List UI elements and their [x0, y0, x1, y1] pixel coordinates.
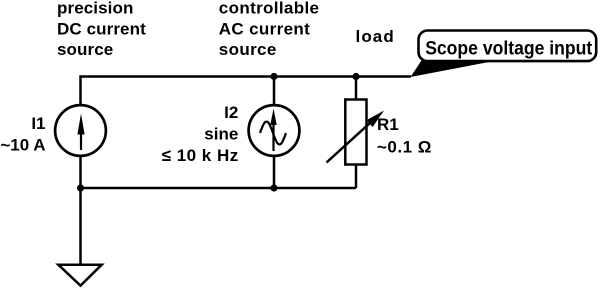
svg-text:AC current: AC current	[219, 19, 310, 38]
svg-text:source: source	[219, 40, 277, 59]
svg-text:DC current: DC current	[57, 19, 146, 38]
svg-text:Scope voltage input: Scope voltage input	[425, 38, 593, 59]
svg-text:source: source	[57, 40, 113, 59]
svg-text:I1: I1	[31, 114, 45, 133]
svg-text:~0.1 Ω: ~0.1 Ω	[377, 138, 432, 157]
svg-text:controllable: controllable	[219, 0, 320, 18]
svg-text:precision: precision	[57, 0, 133, 18]
svg-text:sine: sine	[204, 124, 238, 143]
svg-text:load: load	[356, 27, 395, 46]
svg-text:I2: I2	[224, 103, 238, 122]
svg-text:~10 A: ~10 A	[0, 136, 45, 155]
svg-text:≤ 10 k Hz: ≤ 10 k Hz	[162, 146, 239, 165]
svg-text:R1: R1	[377, 115, 399, 134]
